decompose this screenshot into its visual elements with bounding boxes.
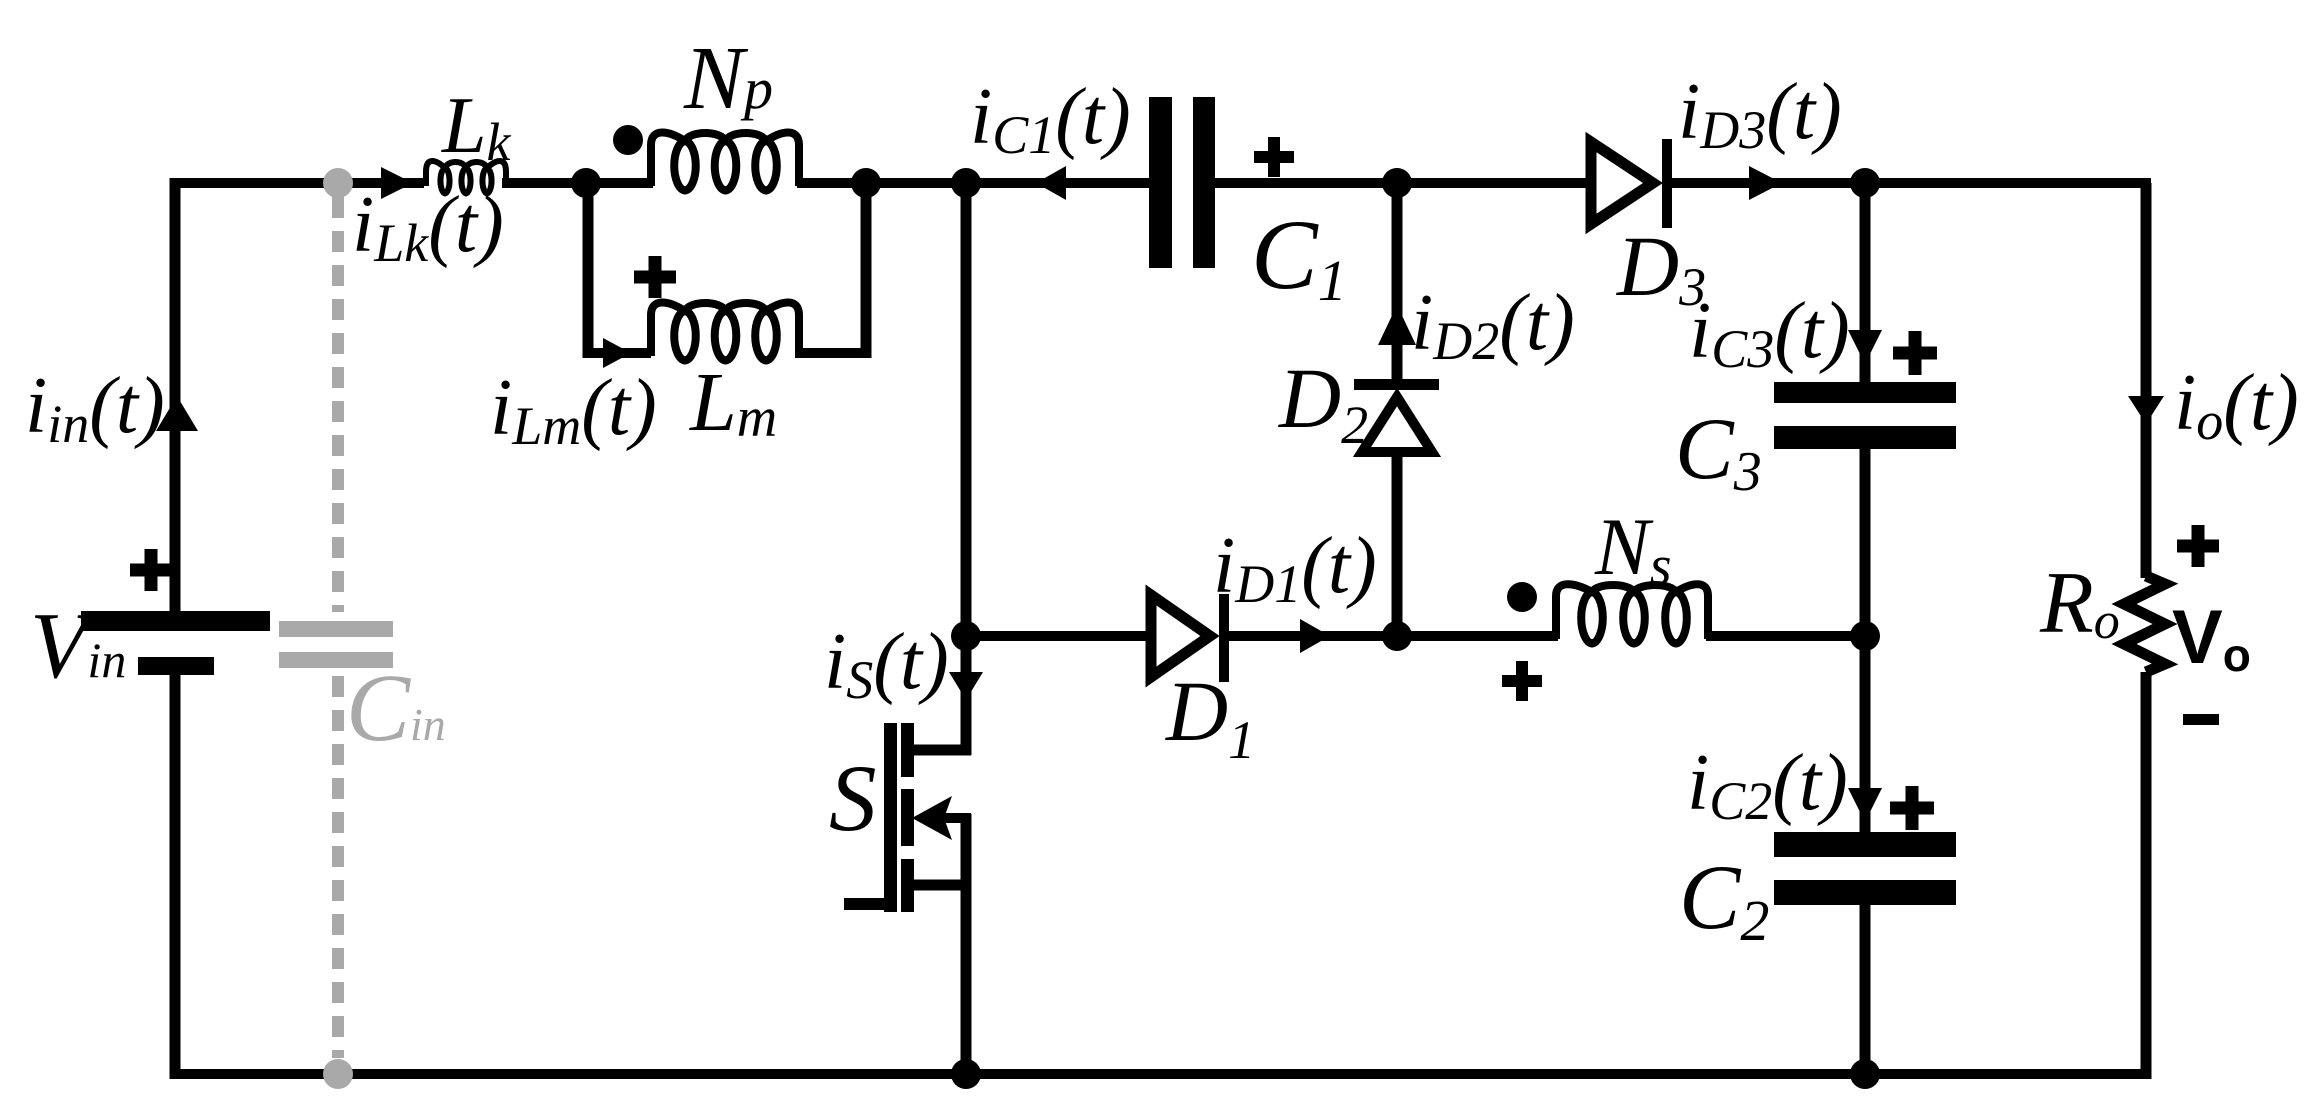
svg-text:iin(t): iin(t) (25, 362, 165, 454)
svg-text:S: S (829, 745, 877, 851)
svg-text:iS(t): iS(t) (824, 618, 949, 710)
svg-text:io(t): io(t) (2174, 359, 2299, 451)
